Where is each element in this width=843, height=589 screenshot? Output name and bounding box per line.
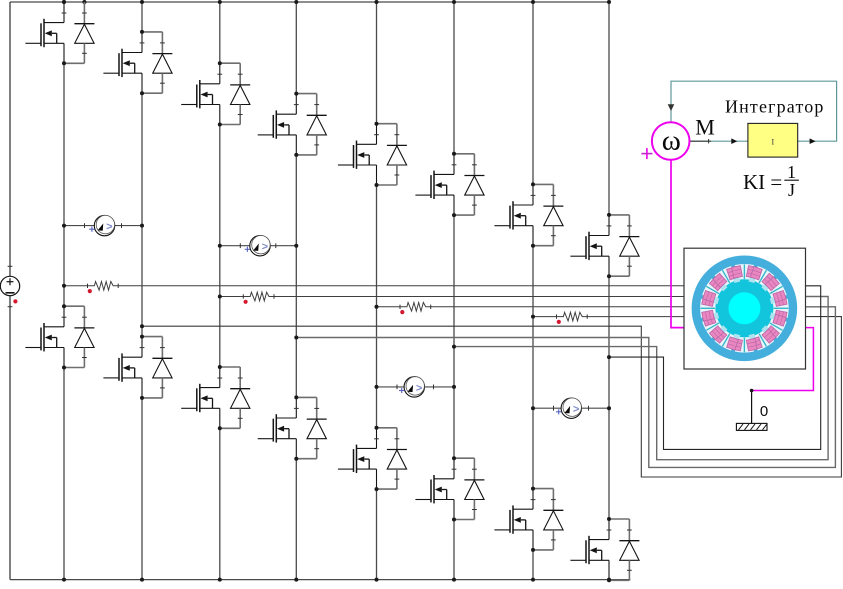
wire stubs switch cell leg5 bottom	[377, 428, 397, 489]
node leg 2 bottom bus junction	[140, 578, 144, 582]
node leg 4 bottom bus junction	[294, 578, 298, 582]
node sensor 3 junctions	[375, 385, 457, 389]
current sensor S4	[556, 398, 582, 418]
wire stubs switch cell leg5 top	[377, 124, 397, 185]
red marker dot R2	[244, 300, 248, 304]
transistor Q7L	[494, 489, 535, 550]
wire stubs switch cell leg1 bottom	[64, 306, 84, 367]
wire leg 8 vertical	[608, 2, 610, 580]
node return B junction	[294, 336, 298, 340]
node junctions cell leg4 bottom	[294, 395, 298, 460]
wire M (omega to integrator)	[689, 139, 748, 143]
wire leg 6 vertical	[453, 2, 455, 580]
diode D7H	[543, 184, 563, 245]
plus sign at summing node	[641, 148, 652, 159]
transistor Q2H	[103, 32, 144, 93]
node junctions cell leg4 top	[294, 92, 298, 157]
svg-text:ω: ω	[662, 124, 681, 156]
wire top DC bus	[10, 1, 609, 3]
node return D junction	[607, 355, 611, 359]
ground symbol	[736, 389, 767, 431]
wire omega to motor (magenta)	[671, 160, 684, 328]
transistor Q6L	[415, 458, 456, 519]
diode D8L	[619, 519, 639, 580]
node resistor R3 junction	[375, 305, 379, 309]
transistor Q8L	[570, 519, 611, 580]
svg-text:M: M	[695, 115, 715, 140]
arrow integrator output	[810, 138, 816, 144]
diode D5H	[387, 124, 407, 185]
wire stubs switch cell leg2 bottom	[142, 337, 162, 398]
diode D3L	[230, 367, 250, 428]
node resistor R1 junction	[62, 284, 66, 288]
node sensor 4 junctions	[531, 406, 611, 410]
wire phase 1 feed with resistor R1	[64, 282, 684, 291]
current sensor S3	[399, 377, 424, 397]
wire stubs switch cell leg3 bottom	[220, 367, 240, 428]
node junctions cell leg6 top	[452, 152, 456, 217]
integrator block (yellow)	[748, 123, 798, 157]
wire stubs switch cell leg8 bottom	[609, 519, 629, 580]
label KI = 1/J	[743, 162, 799, 200]
diode D8H	[619, 215, 639, 276]
transistor Q8H	[570, 215, 611, 276]
node junctions cell leg1 bottom	[62, 304, 66, 369]
voltage source V1	[0, 266, 19, 306]
node leg 6 bottom bus junction	[452, 578, 456, 582]
svg-text:>: >	[573, 404, 579, 416]
node leg 5 top bus junction	[375, 0, 379, 4]
node junctions cell leg7 top	[531, 182, 535, 247]
current sensor S1	[89, 215, 115, 235]
wire leg 5 vertical	[376, 2, 378, 580]
node junctions cell leg3 bottom	[218, 365, 222, 430]
transistor Q7H	[494, 184, 535, 245]
transistor Q4H	[258, 94, 299, 155]
wire sensor 1 branch	[64, 223, 142, 228]
transistor Q3L	[181, 367, 222, 428]
label M	[695, 115, 715, 140]
node sensor 2 junctions	[218, 244, 298, 248]
wire stubs switch cell leg6 bottom	[454, 458, 474, 519]
label Integrator	[725, 97, 825, 117]
node leg 6 top bus junction	[452, 0, 456, 4]
wire stubs switch cell leg7 bottom	[533, 489, 553, 550]
node sensor 1 junctions	[62, 224, 144, 228]
diode D6L	[464, 458, 484, 519]
svg-text:1: 1	[787, 162, 796, 182]
node leg 4 top bus junction	[294, 0, 298, 4]
wire motor return D (leg 8 to motor)	[609, 286, 821, 450]
node junctions cell leg8 top	[607, 213, 611, 278]
svg-text:0: 0	[760, 403, 768, 420]
diode D4L	[307, 397, 327, 458]
node leg 8 bottom bus junction	[607, 578, 611, 582]
node junctions cell leg2 bottom	[140, 335, 144, 400]
wire phase 4 feed with resistor R4	[533, 312, 684, 321]
diode D7L	[543, 489, 563, 550]
svg-text:>: >	[416, 382, 422, 394]
wire phase 2 feed with resistor R2	[220, 292, 684, 301]
wire leg 2 vertical	[141, 2, 143, 580]
wire leg 7 vertical	[532, 2, 534, 580]
wire stubs switch cell leg4 bottom	[296, 397, 316, 458]
wire stubs switch cell leg6 top	[454, 154, 474, 215]
transistor Q1H	[25, 2, 66, 63]
wire leg 4 vertical	[295, 2, 297, 580]
wire bottom DC bus	[10, 579, 630, 581]
svg-text:>: >	[106, 221, 112, 233]
node leg 5 bottom bus junction	[375, 578, 379, 582]
diode D4H	[307, 94, 327, 155]
summing node omega circle	[652, 122, 690, 160]
node resistor R2 junction	[218, 295, 222, 299]
wire motor return B (leg 4 to motor)	[296, 307, 835, 468]
wire motor return A (leg 2 to motor)	[142, 317, 841, 477]
label 0 at ground	[760, 403, 768, 420]
wire stubs switch cell leg4 top	[296, 94, 316, 155]
wire stubs switch cell leg3 top	[220, 63, 240, 124]
node junctions cell leg7 bottom	[531, 487, 535, 552]
wire sensor 2 branch	[220, 243, 296, 248]
wire feedback teal loop	[671, 81, 837, 141]
svg-text:>: >	[262, 241, 268, 253]
transistor Q3H	[181, 63, 222, 124]
node junctions cell leg3 top	[218, 61, 222, 126]
diode D6H	[464, 154, 484, 215]
current sensor S2	[245, 236, 271, 256]
svg-text:Интегратор: Интегратор	[725, 97, 825, 117]
wire stubs switch cell leg1 top	[64, 62, 84, 64]
motor (SRM cross-section) U-motor	[684, 248, 806, 369]
wire stubs switch cell leg2 top	[142, 32, 162, 93]
wire sensor 4 branch	[533, 406, 609, 411]
diode D2H	[152, 32, 172, 93]
node leg 8 top bus junction	[607, 0, 611, 4]
node leg 3 top bus junction	[218, 0, 222, 4]
transistor Q4L	[258, 397, 299, 458]
diode D1H	[74, 2, 94, 63]
wire stubs switch cell leg8 top	[609, 215, 629, 276]
wire left rail (source branch)	[9, 2, 11, 580]
diode D5L	[387, 428, 407, 489]
svg-text:J: J	[788, 180, 795, 200]
transistor Q1L	[25, 306, 66, 367]
node junctions cell leg5 bottom	[375, 426, 379, 491]
node junctions cell leg8 bottom	[607, 517, 611, 582]
svg-text:I: I	[771, 137, 774, 147]
node leg 2 top bus junction	[140, 0, 144, 4]
node leg1/diode top bus junctions	[62, 0, 86, 4]
transistor Q5L	[338, 428, 379, 489]
transistor Q6H	[415, 154, 456, 215]
node leg 3 bottom bus junction	[218, 578, 222, 582]
node junctions cell leg6 bottom	[452, 456, 456, 521]
red marker dot R3	[400, 310, 404, 314]
transistor Q2L	[103, 337, 144, 398]
node return C junction	[452, 345, 456, 349]
wire phase 3 feed with resistor R3	[377, 303, 685, 312]
wire stubs switch cell leg7 top	[533, 184, 553, 245]
wire leg 3 vertical	[219, 2, 221, 580]
red marker dot R4	[557, 320, 561, 324]
node junctions cell leg1 top	[62, 0, 66, 65]
wire sensor 3 branch	[377, 385, 455, 390]
node leg 7 top bus junction	[531, 0, 535, 4]
node leg 7 bottom bus junction	[531, 578, 535, 582]
node return A junction	[140, 324, 144, 328]
node junctions cell leg5 top	[375, 122, 379, 187]
node junctions cell leg2 top	[140, 30, 144, 95]
diode D1L	[74, 306, 94, 367]
wire motor to ground (magenta)	[752, 328, 814, 391]
arrow integrator input	[731, 138, 737, 144]
red marker dot at source	[13, 299, 17, 303]
transistor Q5H	[338, 124, 379, 185]
diode D2L	[152, 337, 172, 398]
wire leg 1 vertical	[63, 63, 65, 579]
arrow into summing node	[668, 104, 675, 111]
node leg 1 bottom bus junction	[62, 578, 66, 582]
diode D3H	[230, 63, 250, 124]
node resistor R4 junction	[531, 315, 535, 319]
svg-text:KI =: KI =	[743, 170, 782, 194]
wire motor return C (leg 6 to motor)	[454, 297, 828, 460]
red marker dot R1	[88, 289, 92, 293]
